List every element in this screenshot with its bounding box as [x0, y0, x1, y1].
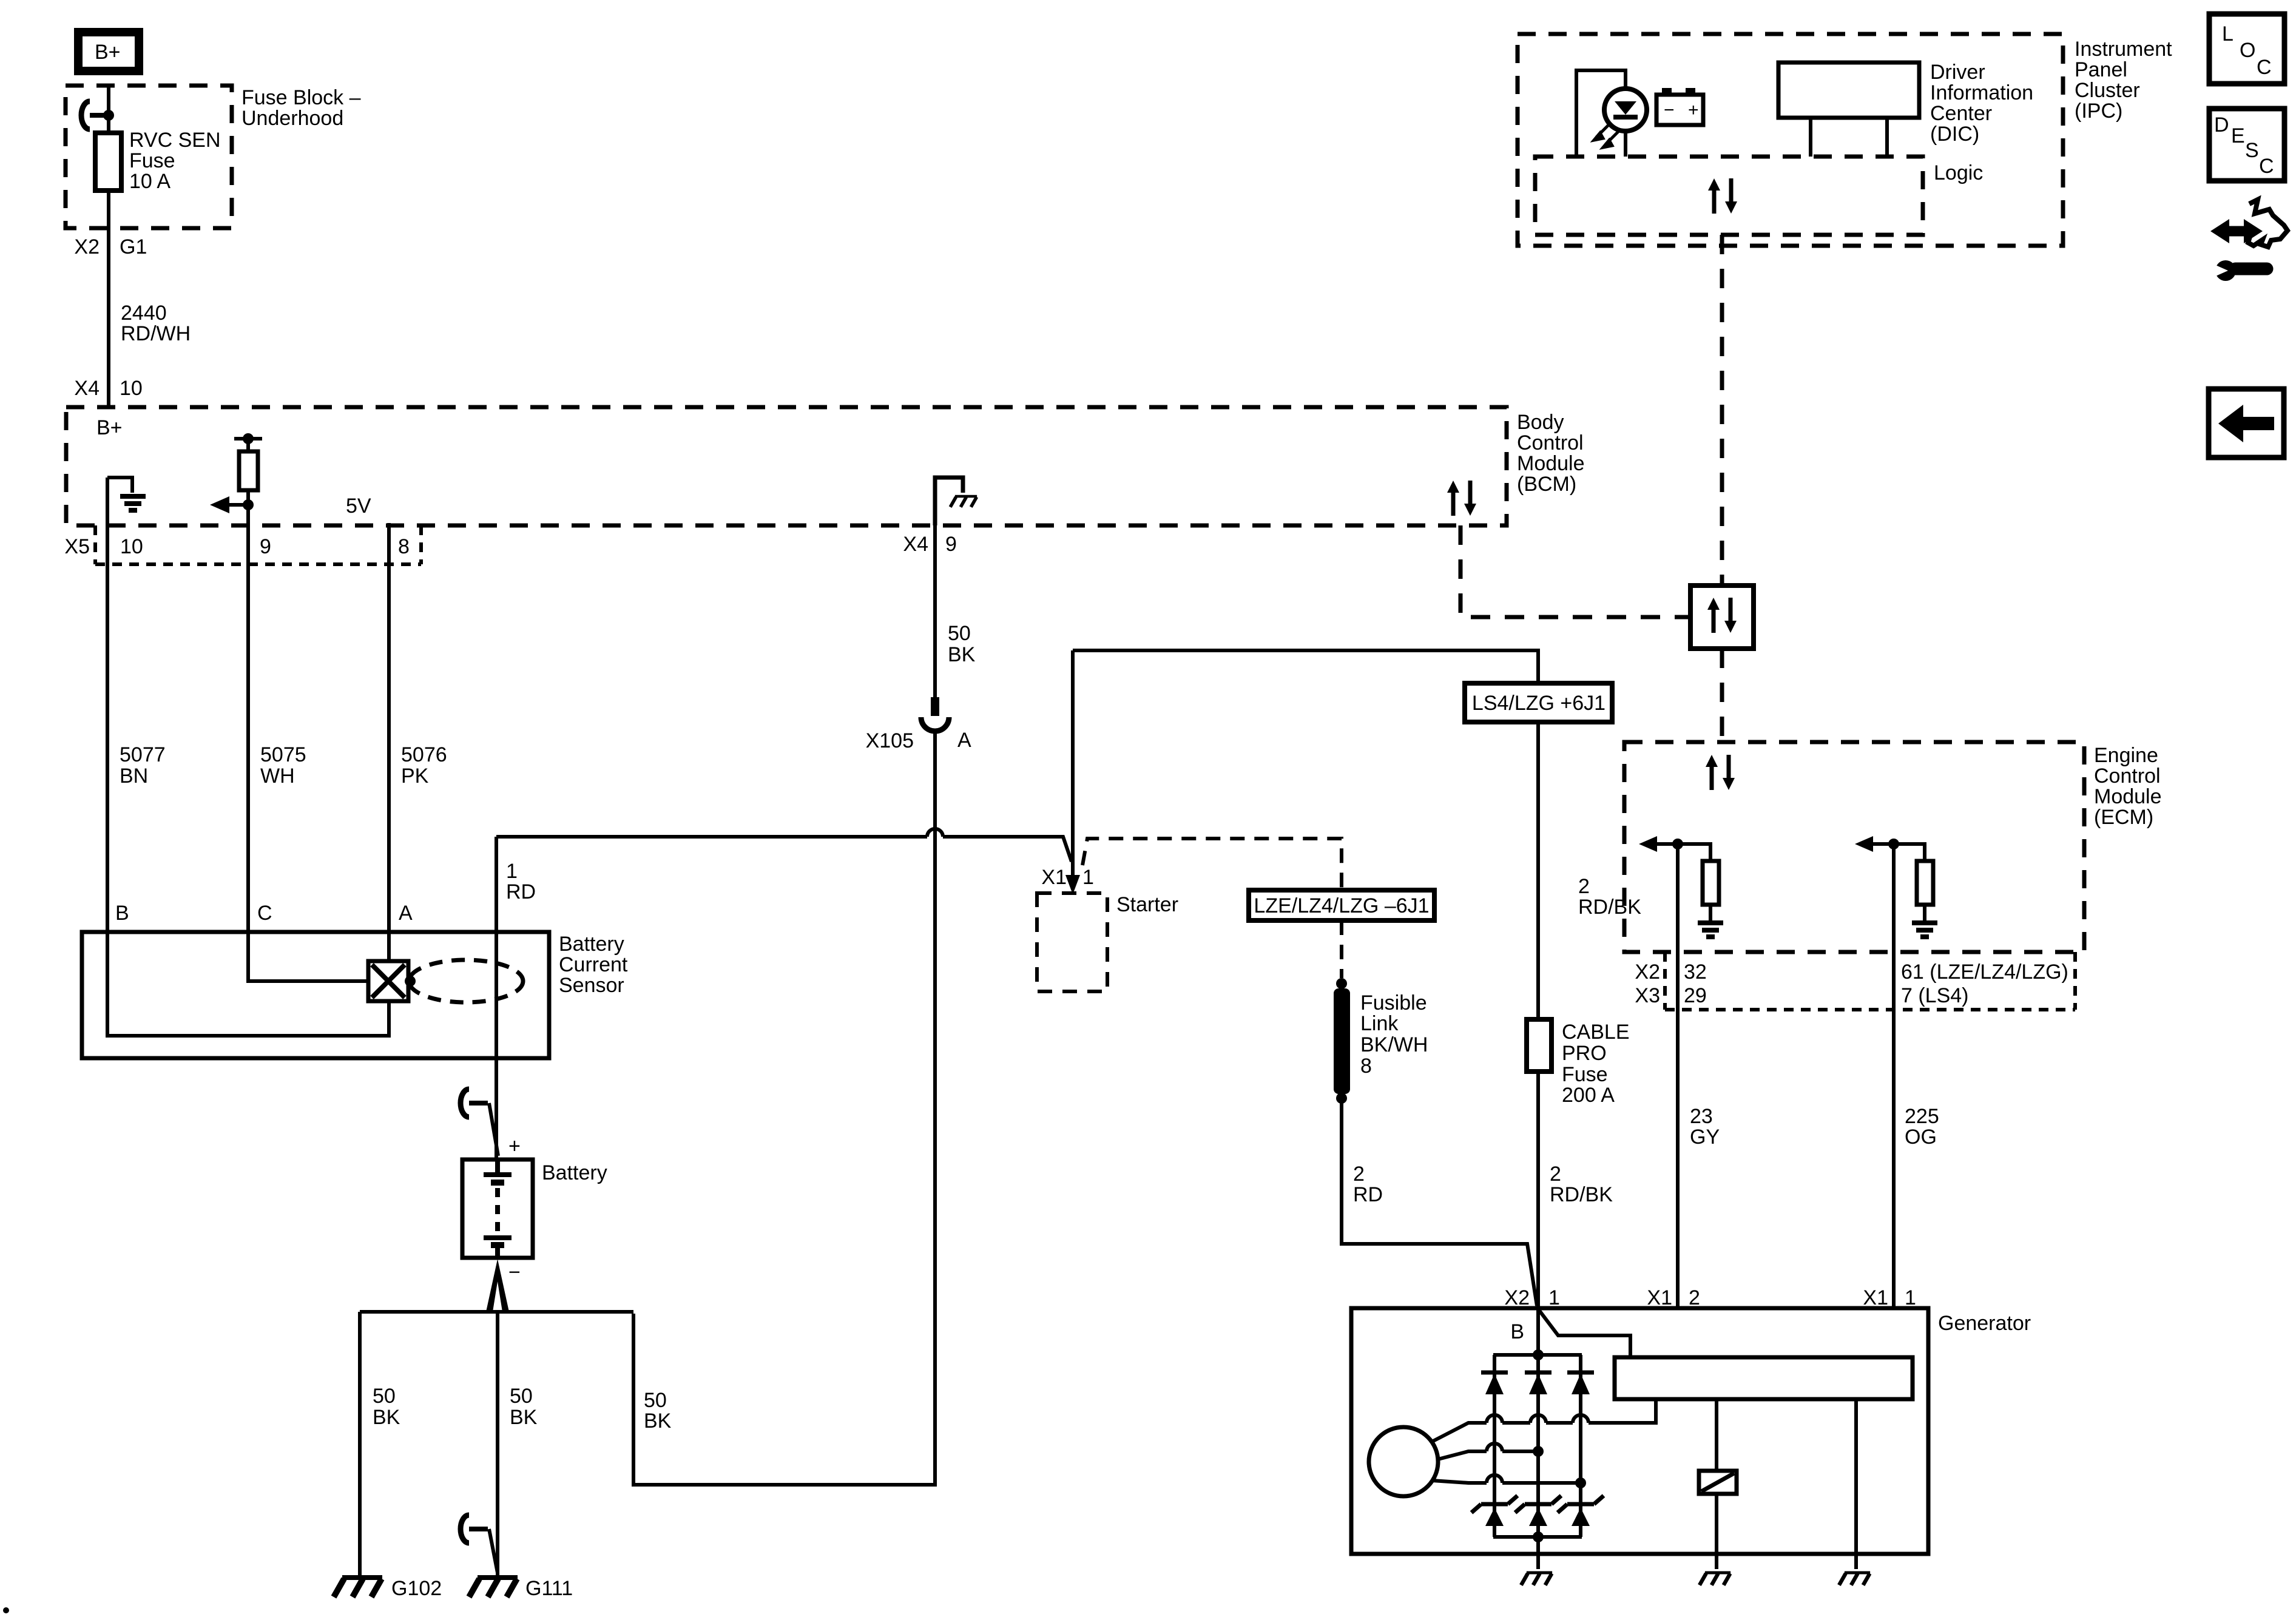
- svg-text:(IPC): (IPC): [2075, 100, 2122, 123]
- wire B to rectifier bus: [1536, 1308, 1540, 1355]
- svg-text:1: 1: [1905, 1286, 1916, 1309]
- signal arrow left on wire 9: [225, 503, 248, 507]
- rectifier ground wire: [1536, 1537, 1540, 1569]
- svg-text:G1: G1: [120, 235, 147, 258]
- internal wire from B: [107, 932, 389, 1036]
- rectifier top bus: [1493, 1353, 1582, 1357]
- svg-text:BK: BK: [644, 1409, 672, 1433]
- svg-text:Fusible: Fusible: [1360, 991, 1427, 1014]
- ground G102: [334, 1578, 382, 1597]
- regulator field output wire: [1715, 1399, 1718, 1471]
- back arrow box: [2209, 389, 2284, 457]
- svg-text:Fuse: Fuse: [1562, 1063, 1608, 1086]
- up/down arrows in logic: [1708, 178, 1737, 214]
- svg-text:23: 23: [1690, 1105, 1713, 1128]
- svg-text:BN: BN: [120, 765, 148, 788]
- svg-text:Fuse Block –: Fuse Block –: [241, 86, 361, 109]
- wire 225 OG down to generator X1-1: [1892, 844, 1896, 1308]
- svg-text:2: 2: [1353, 1163, 1365, 1186]
- svg-text:Module: Module: [2094, 785, 2162, 808]
- connector row X5: [64, 525, 421, 564]
- svg-text:GY: GY: [1690, 1126, 1720, 1149]
- svg-text:X2: X2: [74, 235, 100, 258]
- ground (rectifier chassis): [1521, 1573, 1552, 1585]
- wire 1 RD from starter feed through sensor to battery: [495, 837, 498, 1160]
- dashed branch to LZE/LZ4/LZG -6J1: [1082, 839, 1342, 890]
- svg-text:B: B: [115, 902, 129, 925]
- svg-text:X105: X105: [866, 729, 914, 752]
- svg-text:X1: X1: [1041, 866, 1067, 889]
- wire pin10 to internal ground: [107, 478, 132, 493]
- wire hop: [927, 829, 943, 837]
- svg-text:RVC SEN: RVC SEN: [129, 129, 221, 152]
- svg-text:2: 2: [1689, 1286, 1700, 1309]
- svg-text:Center: Center: [1930, 102, 1992, 125]
- svg-text:Body: Body: [1517, 411, 1564, 434]
- stator phase bottom: [1432, 1480, 1581, 1483]
- Logic dashed box: [1535, 157, 1923, 235]
- svg-text:Generator: Generator: [1938, 1312, 2031, 1335]
- svg-text:BK/WH: BK/WH: [1360, 1033, 1428, 1056]
- battery icon in IPC: [1656, 88, 1703, 125]
- svg-text:(BCM): (BCM): [1517, 473, 1576, 496]
- CABLE PRO Fuse 200 A: [1527, 1019, 1630, 1107]
- dashed sensing loop ellipse: [409, 960, 523, 1002]
- resistor (ECM pull, right): [1917, 861, 1933, 905]
- svg-text:L: L: [2222, 22, 2234, 46]
- resistor (ECM pull, left): [1703, 861, 1719, 905]
- up/down arrows in BCM: [1447, 481, 1476, 516]
- Body Control Module dashed box: [66, 407, 1507, 525]
- svg-text:X4: X4: [903, 533, 928, 556]
- wire starter to +6J1: [1073, 650, 1538, 683]
- svg-text:1: 1: [1548, 1286, 1560, 1309]
- wire sensor to starter (1 RD) with hop over 50BK: [496, 837, 1072, 862]
- svg-text:C: C: [2259, 155, 2274, 178]
- svg-text:2: 2: [1550, 1163, 1561, 1186]
- svg-text:29: 29: [1684, 984, 1707, 1007]
- regulator right ground wire: [1854, 1399, 1858, 1569]
- svg-text:X4: X4: [74, 377, 100, 400]
- svg-text:Sensor: Sensor: [559, 974, 624, 997]
- svg-text:Cluster: Cluster: [2075, 79, 2140, 102]
- G111 inline connector: [461, 1515, 488, 1543]
- svg-text:Panel: Panel: [2075, 58, 2127, 81]
- svg-text:61 (LZE/LZ4/LZG): 61 (LZE/LZ4/LZG): [1901, 960, 2068, 984]
- label box LZE/LZ4/LZG -6J1: [1249, 890, 1434, 920]
- svg-text:5V: 5V: [346, 495, 371, 518]
- connector terminal hook at fuse: [81, 101, 109, 129]
- wire +6J1 down to generator: [1536, 722, 1540, 1308]
- stator phase top: [1432, 1399, 1656, 1442]
- svg-text:Battery: Battery: [559, 933, 624, 956]
- svg-text:RD: RD: [506, 880, 536, 903]
- wire 50 BK below X105 down and to battery junction: [633, 731, 935, 1485]
- svg-text:A: A: [399, 902, 413, 925]
- up/down arrows in ECM: [1706, 755, 1735, 790]
- internal wire from C: [248, 932, 368, 981]
- DIC legs: [1811, 118, 1887, 157]
- Fuse Block - Underhood dashed box: [66, 86, 232, 228]
- svg-text:PRO: PRO: [1562, 1042, 1607, 1065]
- svg-text:2440: 2440: [121, 302, 167, 325]
- diagnostic tool icon (arrow + wrench): [2210, 200, 2288, 281]
- svg-text:B+: B+: [96, 416, 123, 439]
- rectifier branch wires: [1494, 1355, 1581, 1537]
- svg-text:Fuse: Fuse: [129, 149, 175, 172]
- svg-text:CABLE: CABLE: [1562, 1021, 1630, 1044]
- svg-text:200 A: 200 A: [1562, 1084, 1615, 1107]
- svg-text:BK: BK: [373, 1406, 400, 1429]
- stator phase middle: [1438, 1451, 1538, 1459]
- zener diode Z3: [1558, 1496, 1604, 1526]
- ground (ECM left, earth): [1698, 923, 1723, 937]
- svg-text:+: +: [508, 1135, 521, 1158]
- svg-text:X2: X2: [1635, 960, 1660, 984]
- internal wire from A: [387, 932, 391, 961]
- DESC box: [2209, 109, 2284, 181]
- resistor (BCM pull-up on wire 9): [234, 433, 262, 505]
- wire 50 BK to G111: [496, 1312, 499, 1576]
- svg-text:Control: Control: [2094, 765, 2161, 788]
- stator winding circle: [1369, 1427, 1438, 1496]
- ground G111: [469, 1578, 518, 1597]
- svg-text:Logic: Logic: [1934, 161, 1983, 184]
- bus IPC logic down to comm node: [1720, 235, 1724, 586]
- charge indicator wiring: [1576, 70, 1626, 157]
- svg-text:G102: G102: [391, 1577, 442, 1600]
- Starter dashed box: [1037, 893, 1107, 991]
- Battery Current Sensor box: [82, 932, 549, 1058]
- zener diode Z1: [1471, 1496, 1518, 1526]
- ground (BCM internal, earth): [120, 496, 146, 510]
- regulator to stator stub: [1654, 1399, 1658, 1423]
- svg-text:OG: OG: [1905, 1126, 1937, 1149]
- svg-text:(DIC): (DIC): [1930, 123, 1979, 146]
- wire 5V pin 8 down to sensor A: [387, 523, 391, 932]
- svg-text:+: +: [1688, 100, 1699, 120]
- svg-text:10: 10: [120, 535, 143, 558]
- svg-text:Instrument: Instrument: [2075, 38, 2172, 61]
- ground (ECM right, earth): [1912, 923, 1937, 937]
- fusible link BK/WH 8: [1334, 978, 1428, 1104]
- wire 50 BK to G102: [358, 1312, 362, 1576]
- svg-text:50: 50: [948, 622, 971, 645]
- BCM internal ground at X4-9: [935, 478, 963, 525]
- diode D2: [1525, 1372, 1551, 1394]
- svg-text:RD: RD: [1353, 1183, 1383, 1206]
- svg-text:8: 8: [398, 535, 410, 558]
- bus comm node down to ECM: [1720, 649, 1724, 742]
- svg-text:Engine: Engine: [2094, 744, 2158, 767]
- battery negative arrow: [486, 1259, 509, 1312]
- svg-text:10 A: 10 A: [129, 170, 171, 193]
- field element box: [1699, 1471, 1737, 1494]
- Instrument Panel Cluster dashed box: [1518, 34, 2063, 246]
- svg-text:−: −: [1664, 100, 1675, 120]
- svg-text:RD/BK: RD/BK: [1550, 1183, 1613, 1206]
- bus BCM to comm node: [1460, 525, 1690, 617]
- wire from LS4 net down to starter: [1071, 650, 1075, 876]
- Battery box: [462, 1160, 533, 1258]
- svg-text:5077: 5077: [120, 743, 166, 766]
- svg-text:50: 50: [510, 1385, 533, 1408]
- svg-text:BK: BK: [948, 643, 976, 666]
- svg-text:B+: B+: [95, 41, 121, 64]
- svg-text:C: C: [257, 902, 272, 925]
- lamp light arrows: [1594, 124, 1619, 147]
- LOC box: [2209, 14, 2284, 84]
- comm node box with arrows: [1690, 586, 1754, 649]
- ground (field chassis): [1700, 1573, 1730, 1585]
- wire B+ to X2-G1 to X4-10 (2440 RD/WH): [107, 87, 110, 407]
- svg-text:E: E: [2231, 124, 2245, 147]
- svg-text:1: 1: [1082, 866, 1094, 889]
- svg-text:X1: X1: [1647, 1286, 1672, 1309]
- svg-text:5075: 5075: [260, 743, 306, 766]
- svg-text:Current: Current: [559, 953, 628, 976]
- label box LS4/LZG +6J1: [1465, 683, 1612, 722]
- svg-text:9: 9: [945, 533, 957, 556]
- diode D3: [1567, 1372, 1594, 1394]
- junction dot: [103, 110, 114, 121]
- svg-text:C: C: [2257, 56, 2272, 79]
- svg-text:Driver: Driver: [1930, 61, 1985, 84]
- svg-text:50: 50: [373, 1385, 396, 1408]
- stray mark: [3, 1607, 9, 1613]
- svg-text:Underhood: Underhood: [241, 107, 343, 130]
- svg-text:X1: X1: [1863, 1286, 1888, 1309]
- battery cells: [484, 1160, 512, 1258]
- svg-text:B: B: [1510, 1320, 1524, 1343]
- svg-text:−: −: [508, 1261, 521, 1284]
- inline connector X105 pin A: [866, 697, 971, 752]
- ground (regulator chassis): [1839, 1573, 1870, 1585]
- wire 2 RD to generator X2-1: [1342, 1102, 1537, 1306]
- wire 50 BK from BCM X4-9: [933, 525, 937, 697]
- rectifier bottom bus: [1493, 1535, 1582, 1539]
- voltage regulator bar: [1615, 1357, 1913, 1399]
- svg-text:D: D: [2214, 113, 2229, 137]
- ECM right input arrow: [1863, 844, 1925, 861]
- svg-text:9: 9: [260, 535, 271, 558]
- diode D1: [1481, 1372, 1508, 1394]
- svg-text:WH: WH: [260, 765, 295, 788]
- svg-text:2: 2: [1578, 875, 1590, 898]
- svg-text:S: S: [2245, 139, 2259, 162]
- fuse RVC SEN 10A: [95, 133, 121, 191]
- svg-text:10: 10: [120, 377, 143, 400]
- svg-text:(ECM): (ECM): [2094, 806, 2153, 829]
- svg-text:7 (LS4): 7 (LS4): [1901, 984, 1969, 1007]
- svg-text:50: 50: [644, 1389, 667, 1412]
- svg-text:Link: Link: [1360, 1012, 1399, 1035]
- svg-text:PK: PK: [401, 765, 429, 788]
- ECM connector row X2/X3: [1635, 952, 2075, 1010]
- zener diode Z2: [1515, 1496, 1561, 1526]
- svg-text:1: 1: [506, 860, 518, 883]
- sensor element (X box): [368, 961, 416, 1001]
- svg-text:BK: BK: [510, 1406, 538, 1429]
- svg-text:RD/BK: RD/BK: [1578, 896, 1641, 919]
- svg-text:32: 32: [1684, 960, 1707, 984]
- svg-text:O: O: [2240, 39, 2255, 62]
- dashed wire below -6J1 box: [1340, 920, 1343, 978]
- svg-text:G111: G111: [525, 1577, 573, 1600]
- DIC box: [1778, 62, 1919, 118]
- wire 23 GY down to generator X1-2: [1676, 844, 1680, 1308]
- svg-text:Starter: Starter: [1116, 893, 1178, 916]
- ECM left input arrow: [1647, 844, 1710, 861]
- svg-text:RD/WH: RD/WH: [121, 322, 191, 345]
- svg-text:X2: X2: [1504, 1286, 1530, 1309]
- charge indicator lamp: [1604, 89, 1647, 131]
- svg-text:225: 225: [1905, 1105, 1939, 1128]
- svg-text:Control: Control: [1517, 431, 1584, 454]
- svg-text:Battery: Battery: [542, 1161, 607, 1184]
- svg-text:Information: Information: [1930, 81, 2033, 104]
- svg-text:X5: X5: [64, 535, 90, 558]
- wire 9 down to sensor C: [246, 505, 250, 932]
- battery positive inline connector: [461, 1089, 488, 1117]
- wire X5-10 down to sensor: [106, 478, 109, 932]
- svg-text:Module: Module: [1517, 452, 1585, 475]
- wire B to regulator: [1539, 1311, 1630, 1357]
- Generator box: [1351, 1308, 1928, 1554]
- svg-text:X3: X3: [1635, 984, 1660, 1007]
- svg-text:8: 8: [1360, 1055, 1372, 1078]
- svg-text:5076: 5076: [401, 743, 447, 766]
- Engine Control Module dashed box: [1624, 742, 2084, 952]
- battery negative junction wire: [360, 1310, 633, 1314]
- B+ terminal box: [78, 32, 139, 71]
- svg-text:LZE/LZ4/LZG –6J1: LZE/LZ4/LZG –6J1: [1254, 894, 1429, 917]
- svg-text:A: A: [957, 729, 971, 752]
- svg-text:LS4/LZG +6J1: LS4/LZG +6J1: [1472, 692, 1606, 715]
